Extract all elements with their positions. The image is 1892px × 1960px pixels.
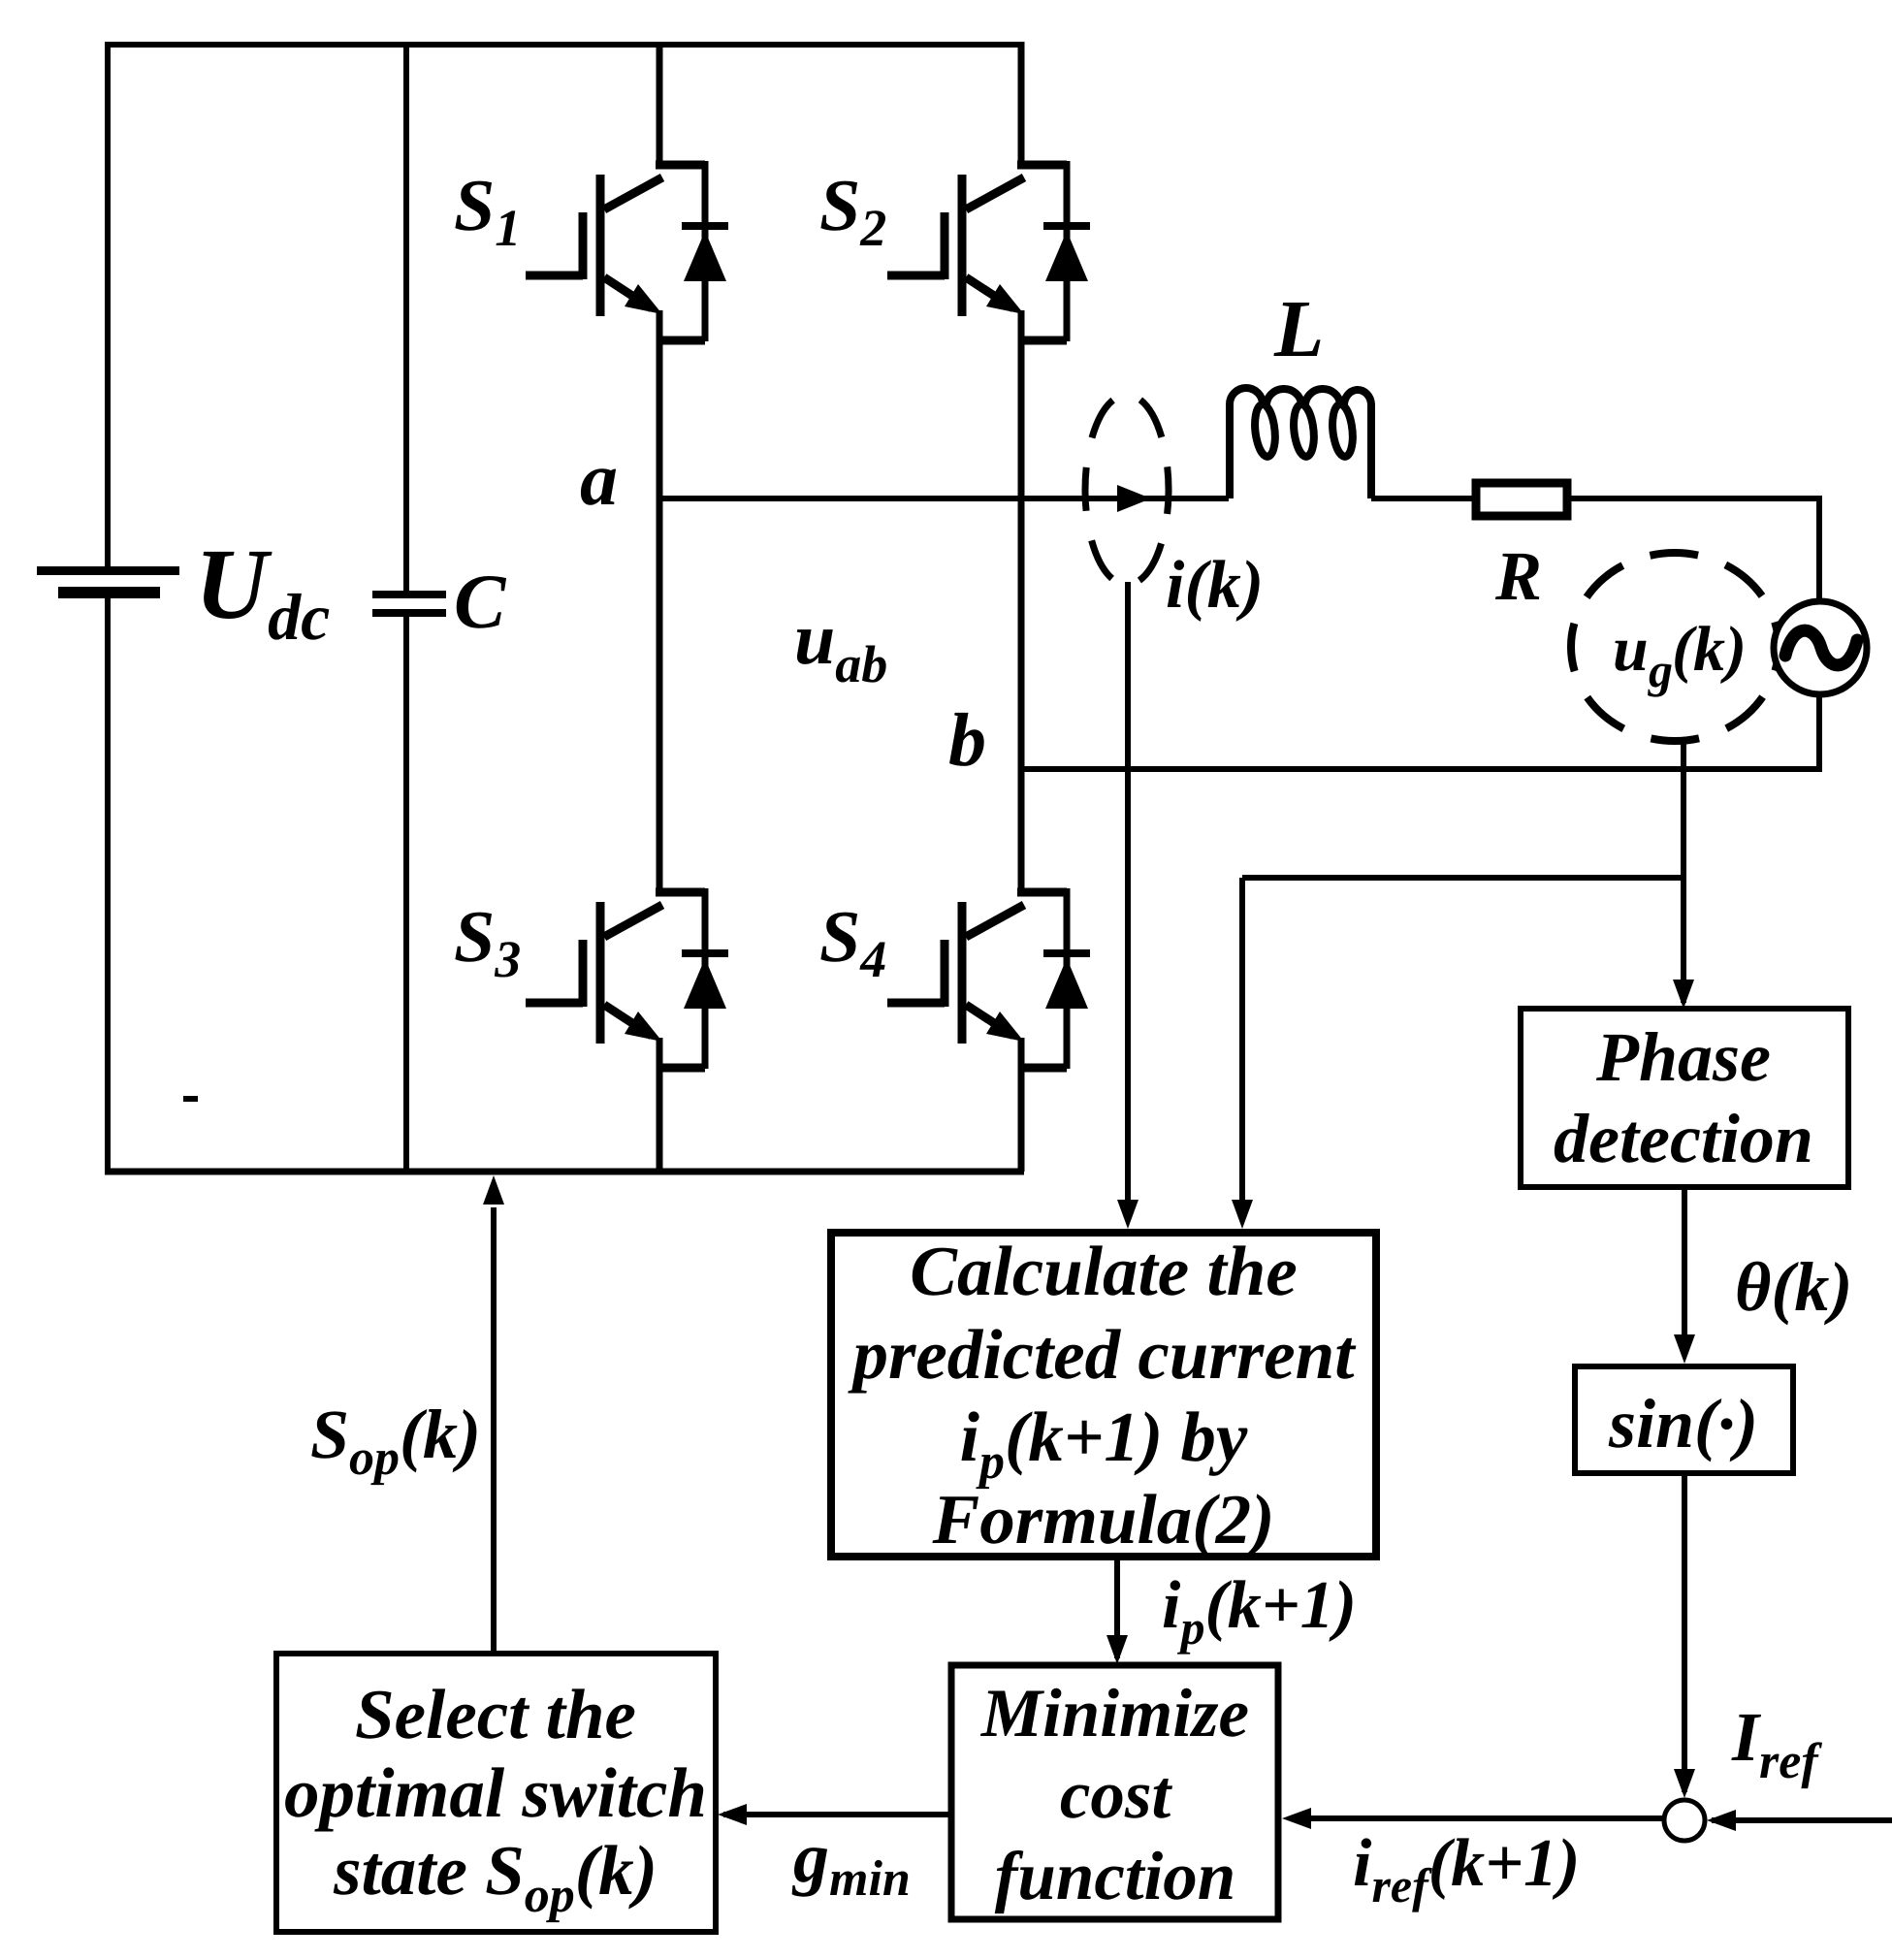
wire ug tap vertical (1681, 739, 1686, 1003)
wire bottom bus (105, 1169, 1024, 1175)
diode D3 (659, 888, 728, 1069)
capacitor C top plate (372, 591, 446, 598)
svg-text:(k): (k) (1672, 614, 1747, 685)
transistor S4 (IGBT) (887, 892, 1067, 1044)
wire left bus lower (105, 595, 111, 1172)
svg-text:sin(·): sin(·) (1608, 1385, 1758, 1462)
svg-text:S4: S4 (819, 896, 886, 988)
arrowhead Sop into bus (483, 1175, 504, 1205)
arrowhead into Minimize top (1106, 1635, 1128, 1664)
block Select (276, 1654, 716, 1932)
svg-text:C: C (454, 560, 507, 645)
transistor S3 (IGBT) (526, 892, 705, 1044)
wire Calculate to Minimize (1114, 1559, 1120, 1658)
svg-text:Select the: Select the (355, 1675, 636, 1753)
arrowhead into summing junction (1674, 1769, 1695, 1798)
wire Minimize to Select (723, 1812, 951, 1817)
wire ug tap branch horizontal (1242, 875, 1684, 881)
svg-text:S1: S1 (454, 165, 521, 257)
battery minus mark (183, 1096, 198, 1102)
battery Udc long plate (37, 566, 179, 575)
wire S2 emitter to node b to S4 (1018, 310, 1025, 892)
resistor R (1476, 483, 1567, 516)
svg-text:Iref: Iref (1731, 1698, 1822, 1789)
arrowhead into Select (718, 1804, 747, 1825)
svg-text:function: function (995, 1839, 1236, 1914)
wire Iref from right edge (1712, 1817, 1892, 1823)
block sin (1575, 1366, 1793, 1473)
summing junction (1664, 1800, 1705, 1841)
transistor S1 (IGBT) (526, 165, 705, 316)
svg-text:optimal switch: optimal switch (284, 1753, 707, 1832)
wire Select to bottom bus (Sop feedback) (491, 1207, 497, 1654)
wire sin to summing junction (1682, 1473, 1687, 1792)
capacitor C bottom plate (372, 609, 446, 617)
block Phase detection (1521, 1009, 1848, 1187)
wire AC source to node b (1021, 694, 1819, 769)
current sensor i(k) dashed ellipse (1085, 395, 1169, 585)
arrowhead i(k) into Calculate (1117, 1200, 1138, 1229)
wire i(k) tap (1125, 582, 1131, 1214)
wire summing junction to Minimize (1290, 1815, 1664, 1821)
svg-text:Phase: Phase (1595, 1018, 1771, 1096)
svg-text:Minimize: Minimize (980, 1676, 1249, 1751)
wire resistor to AC source (1571, 498, 1819, 601)
transistor S2 (IGBT) (887, 165, 1067, 316)
svg-text:predicted current: predicted current (847, 1315, 1357, 1394)
svg-text:L: L (1273, 284, 1324, 374)
wire node a to inductor (659, 496, 1229, 501)
svg-text:S3: S3 (454, 896, 521, 988)
svg-text:S2: S2 (819, 165, 886, 257)
diode D1 (659, 161, 728, 341)
block Calculate (831, 1233, 1376, 1557)
battery Udc short plate (58, 587, 160, 598)
svg-text:ip(k+1): ip(k+1) (1162, 1568, 1357, 1655)
arrowhead into sin (1674, 1334, 1695, 1364)
arrowhead into Minimize (1282, 1808, 1311, 1829)
svg-text:Udc: Udc (195, 529, 330, 654)
svg-text:u: u (1613, 614, 1649, 685)
svg-text:R: R (1494, 537, 1542, 615)
wire top bus (108, 45, 1021, 569)
wire S1 leg top (657, 42, 663, 165)
svg-text:Calculate the: Calculate the (910, 1232, 1297, 1310)
block Minimize (951, 1665, 1278, 1919)
svg-text:state Sop(k): state Sop(k) (333, 1831, 657, 1923)
svg-text:cost: cost (1060, 1757, 1173, 1833)
wire Phase detection to sin (1682, 1187, 1687, 1356)
svg-text:θ(k): θ(k) (1735, 1248, 1852, 1326)
wire S1 emitter to node a to S3 (657, 310, 663, 892)
inductor L (1230, 388, 1371, 498)
svg-text:detection: detection (1554, 1100, 1813, 1177)
svg-text:Sop(k): Sop(k) (310, 1396, 481, 1486)
svg-text:iref(k+1): iref(k+1) (1353, 1826, 1580, 1912)
wire inductor to resistor (1371, 496, 1476, 501)
arrowhead ug branch into Calculate (1232, 1200, 1253, 1229)
AC source circle (1774, 601, 1867, 694)
svg-text:g: g (1648, 643, 1673, 697)
voltage sensor ug(k) dashed ellipse (1571, 553, 1779, 741)
svg-text:Formula(2): Formula(2) (932, 1480, 1275, 1558)
wire capacitor branch lower (403, 617, 409, 1172)
diode D2 (1021, 161, 1090, 341)
svg-text:uab: uab (794, 598, 887, 693)
svg-text:a: a (580, 436, 618, 521)
diode D4 (1021, 888, 1090, 1069)
current sensor arrow (1117, 485, 1151, 512)
wire ug branch down to Calculate (1239, 878, 1245, 1214)
wire S2 leg top (1018, 42, 1025, 165)
wire S3 emitter to bottom bus (657, 1038, 663, 1172)
AC source sine symbol (1785, 630, 1857, 665)
arrowhead Iref into summing junction (1707, 1810, 1736, 1831)
wire capacitor branch upper (403, 42, 409, 593)
svg-text:gmin: gmin (791, 1818, 911, 1907)
svg-text:i(k): i(k) (1166, 548, 1264, 623)
wire S4 emitter to bottom bus (1018, 1038, 1025, 1172)
svg-text:b: b (948, 697, 986, 782)
arrowhead ug into Phase detection (1673, 980, 1694, 1009)
